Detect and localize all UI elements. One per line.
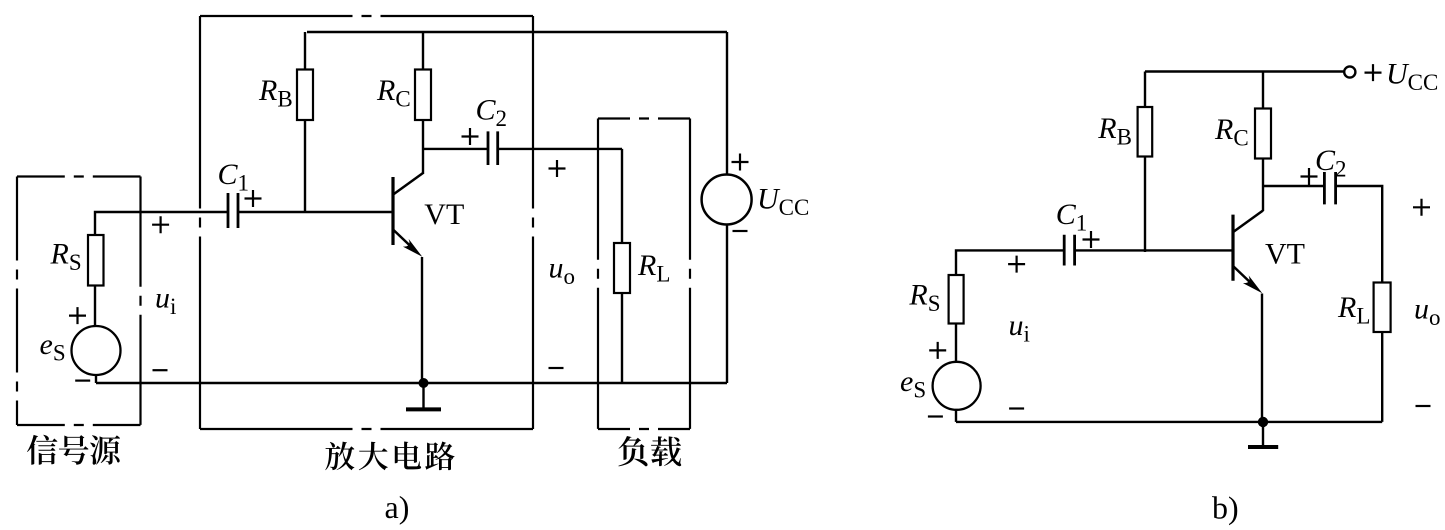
transistor VT base bar (b)	[1231, 215, 1234, 281]
plus sign eS (b)	[929, 342, 946, 359]
wire RS top to C1 (a)	[95, 212, 228, 234]
wire RB bottom (b)	[1144, 157, 1146, 253]
transistor VT emitter diagonal with arrow (a)	[393, 229, 414, 249]
svg-text:ui: ui	[1009, 309, 1030, 347]
svg-text:RC: RC	[1214, 113, 1249, 151]
resistor RS (b)	[949, 275, 964, 324]
wire collector branch to C2 (b)	[1263, 185, 1324, 187]
plus sign eS (a)	[69, 307, 86, 324]
wire top supply bus (b)	[1145, 70, 1344, 72]
terminal circle +UCC (b)	[1344, 66, 1355, 77]
wire C1 to base (b)	[1075, 249, 1232, 251]
wire RC bottom to collector (b)	[1262, 159, 1264, 212]
source eS circle (b)	[933, 362, 981, 410]
svg-text:RC: RC	[376, 74, 411, 112]
plus sign at C2 (a)	[462, 128, 479, 145]
plus sign at C2 (b)	[1301, 168, 1318, 185]
capacitor C2 (b)	[1324, 172, 1335, 204]
ground node dot (b)	[1258, 417, 1268, 427]
wire load vertical bottom (a)	[621, 293, 623, 383]
wire RB top (a)	[304, 32, 306, 70]
capacitor C2 (a)	[488, 131, 498, 165]
minus sign ui (a)	[153, 369, 168, 371]
wire bottom bus (b)	[956, 421, 1382, 423]
wire C2 to RL (b)	[1336, 186, 1383, 283]
wire eS to bottom bus (b)	[955, 410, 957, 422]
resistor RB (a)	[297, 70, 313, 121]
wire emitter vertical (b)	[1261, 294, 1263, 422]
svg-text:eS: eS	[900, 365, 926, 403]
source eS circle (a)	[72, 326, 121, 375]
wire UCC bottom (a)	[726, 225, 728, 384]
wire RC top (b)	[1262, 72, 1264, 109]
label fang-da-dian-lu (amplifier circuit)	[325, 442, 354, 471]
wire RL bottom (b)	[1381, 332, 1383, 422]
transistor VT emitter diagonal with arrow (b)	[1233, 266, 1254, 286]
wire load vertical top (a)	[621, 149, 623, 243]
plus sign at C1 (a)	[245, 190, 262, 207]
resistor RL (a)	[614, 243, 630, 293]
svg-text:VT: VT	[424, 198, 464, 231]
svg-text:C2: C2	[476, 94, 508, 132]
wire top supply bus (a)	[307, 31, 727, 33]
minus sign uo (b)	[1416, 405, 1431, 407]
label fu-zai (load)	[618, 436, 647, 466]
minus sign eS (b)	[928, 415, 943, 417]
wire C1 to base (a)	[238, 211, 392, 213]
resistor RS (a)	[88, 235, 104, 286]
plus sign UCC (b)	[1365, 64, 1382, 81]
amplifier box (dash-dot)	[200, 15, 533, 17]
wire eS to bottom bus (a)	[95, 375, 97, 384]
svg-text:eS: eS	[40, 328, 66, 366]
transistor VT base bar (a)	[391, 177, 394, 245]
plus sign ui (b)	[1008, 256, 1025, 273]
svg-text:RS: RS	[908, 279, 940, 317]
wire RC bottom to collector (a)	[422, 120, 424, 174]
source UCC circle (a)	[702, 175, 752, 225]
wire collector branch to C2 (a)	[423, 148, 488, 150]
svg-text:a): a)	[385, 489, 410, 525]
svg-text:uo: uo	[549, 252, 576, 290]
plus sign uo (b)	[1413, 199, 1430, 216]
capacitor C1 (b)	[1064, 235, 1074, 266]
transistor VT collector diagonal (b)	[1233, 211, 1264, 233]
resistor RC (a)	[415, 70, 431, 121]
signal source box (dash-dot)	[17, 175, 141, 177]
svg-text:ui: ui	[155, 282, 176, 320]
ground (b)	[1262, 422, 1264, 445]
svg-text:RL: RL	[1337, 291, 1370, 329]
transistor VT collector diagonal (a)	[393, 173, 424, 195]
wire bottom bus (a)	[96, 382, 727, 384]
label xin-hao-yuan (signal source)	[27, 435, 57, 465]
svg-text:RB: RB	[1097, 112, 1132, 150]
svg-text:RS: RS	[50, 238, 82, 276]
resistor RB (b)	[1138, 107, 1153, 157]
svg-text:RB: RB	[258, 74, 293, 112]
plus sign ui (a)	[152, 216, 169, 233]
wire C2 to load (a)	[498, 148, 622, 150]
wire RC top (a)	[422, 32, 424, 70]
svg-text:UCC: UCC	[1386, 58, 1438, 96]
resistor RC (b)	[1255, 109, 1271, 159]
resistor RL (b)	[1374, 283, 1391, 333]
plus sign UCC (a)	[732, 154, 749, 171]
plus sign at C1 (b)	[1083, 231, 1100, 248]
svg-text:C1: C1	[218, 158, 250, 196]
svg-text:b): b)	[1212, 490, 1239, 526]
wire RS to eS (b)	[955, 324, 957, 363]
svg-text:UCC: UCC	[757, 183, 809, 221]
minus sign uo (a)	[549, 367, 564, 369]
minus sign ui (b)	[1009, 407, 1024, 409]
svg-text:uo: uo	[1414, 293, 1441, 331]
wire RS to eS (a)	[94, 286, 96, 328]
wire UCC top (a)	[726, 32, 728, 175]
svg-text:C1: C1	[1056, 198, 1088, 236]
ground node dot (a)	[419, 378, 429, 388]
load box (dash-dot)	[598, 117, 690, 119]
svg-text:VT: VT	[1265, 237, 1305, 270]
minus sign eS (a)	[75, 380, 90, 382]
wire RB top (b)	[1144, 72, 1146, 108]
wire RB bottom to input node (a)	[304, 120, 306, 213]
wire emitter vertical (a)	[421, 257, 423, 383]
svg-text:C2: C2	[1315, 144, 1347, 182]
ground (a)	[422, 383, 424, 408]
wire RS top to C1 (b)	[956, 250, 1064, 275]
capacitor C1 (a)	[228, 193, 238, 228]
plus sign uo (a)	[549, 160, 566, 177]
svg-text:RL: RL	[637, 249, 670, 287]
minus sign UCC (a)	[733, 230, 748, 232]
